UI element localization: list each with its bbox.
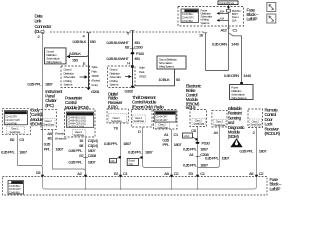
module PCM dashed box bbox=[65, 109, 96, 137]
fuse block bottom (dashed) bbox=[3, 177, 268, 196]
label 0.35 PPL 1807 on PCM wire bbox=[69, 148, 97, 153]
label 0.35 BLK/WHT 451 lower bbox=[107, 56, 141, 61]
fuse PRKNG BATT Fuse 1 10 A bbox=[227, 5, 242, 26]
pin A8 B1 of IPC bbox=[47, 131, 66, 141]
svg-text:(Federal): (Federal) bbox=[55, 132, 64, 136]
warning triangle SIR bbox=[230, 138, 242, 147]
label 0.35 PPL 1807 on IPC wire bbox=[44, 141, 64, 151]
svg-text:(Export Only): (Export Only) bbox=[132, 104, 153, 109]
svg-text:C3=48 BLK: C3=48 BLK bbox=[9, 192, 21, 195]
svg-text:Splice: Splice bbox=[139, 66, 145, 70]
fuse block name label bbox=[247, 7, 259, 21]
pin 16 of DLC bbox=[199, 33, 207, 38]
label 0.35 PPL 1807 on RCDLR wire bbox=[240, 148, 268, 153]
label 0.35 PPL 1807 on BCM wire bbox=[1, 150, 28, 155]
svg-text:1807: 1807 bbox=[222, 156, 231, 161]
RCDLR class 2 serial data tag bbox=[250, 119, 262, 127]
module BCM (body control module) dashed box bbox=[2, 109, 30, 135]
PCM class 2 serial data tag bbox=[73, 130, 86, 138]
label 0.35 PPL 1807 on EBCM wire bbox=[183, 146, 209, 151]
connector C208 crossing pin B7 bbox=[79, 153, 97, 158]
svg-text:Serial Data: Serial Data bbox=[134, 120, 145, 123]
svg-text:Wiring Systems: Wiring Systems bbox=[46, 60, 62, 64]
splice pack SP102 callout (dashed) bbox=[108, 66, 136, 87]
svg-text:SP205: SP205 bbox=[92, 74, 100, 78]
wire ORN 1440 from fuse bbox=[206, 26, 229, 71]
splice pack SP102 label bbox=[139, 66, 147, 79]
radio class 2 serial data tag bbox=[155, 123, 170, 130]
ground G201 bbox=[86, 88, 100, 94]
wire 10 BLK 50 to G102 bbox=[135, 69, 181, 86]
wire BLK 150 from DLC pin 4 bbox=[66, 33, 88, 88]
svg-text:Wiring Systems: Wiring Systems bbox=[159, 65, 175, 69]
svg-text:Serial Data: Serial Data bbox=[250, 124, 261, 127]
module PCM (powertrain control module) name bbox=[65, 95, 89, 109]
svg-text:SP102: SP102 bbox=[139, 75, 147, 79]
module radio dashed box bbox=[154, 110, 178, 130]
module EBCM dashed box bbox=[190, 110, 207, 127]
svg-text:Pack ,: Pack , bbox=[139, 70, 145, 74]
svg-text:Left I/P: Left I/P bbox=[247, 17, 258, 22]
svg-text:Left I/P: Left I/P bbox=[270, 186, 281, 191]
svg-text:0.35 PPL: 0.35 PPL bbox=[28, 82, 43, 87]
label 0.35 ORN 1440 upper bbox=[212, 42, 240, 47]
wire BLK/WHT 451 from DLC pin 5 bbox=[132, 31, 134, 86]
module digital radio dashed box bbox=[107, 109, 128, 123]
connector C200 crossing pin B2 bbox=[125, 44, 143, 49]
svg-text:0.35 PPL: 0.35 PPL bbox=[240, 148, 255, 153]
pin A2 of fuse block bbox=[77, 171, 87, 178]
IPC class 2 serial data tag bbox=[43, 119, 56, 127]
svg-text:1807: 1807 bbox=[45, 82, 54, 87]
pin A12 C1 of fuse block bbox=[221, 26, 239, 32]
label 0.35 BLK/WHT 451 upper bbox=[107, 40, 141, 45]
wire serial data bus inside fuse block bbox=[43, 178, 257, 190]
fuse block bottom connector table bbox=[8, 181, 24, 195]
wire PPL 1807 from theft deterrent bbox=[143, 127, 172, 168]
splice pack SP205 label bbox=[92, 65, 101, 87]
grommet P100 on EBCM wire bbox=[196, 141, 211, 146]
svg-text:0.35 PPL: 0.35 PPL bbox=[104, 141, 119, 146]
svg-text:Systems: Systems bbox=[201, 21, 210, 25]
module digital radio receiver name bbox=[108, 91, 123, 109]
svg-text:1807: 1807 bbox=[200, 146, 209, 151]
svg-text:C2=16 GRY: C2=16 GRY bbox=[156, 119, 168, 122]
svg-text:Systems: Systems bbox=[64, 83, 73, 87]
svg-text:1440: 1440 bbox=[231, 42, 240, 47]
svg-text:Radio: Radio bbox=[154, 105, 164, 110]
grommet P100 on 451 wire bbox=[131, 51, 145, 56]
svg-text:Serial Data: Serial Data bbox=[111, 120, 122, 123]
svg-text:(Federal: (Federal bbox=[92, 79, 101, 83]
svg-text:(U2K): (U2K) bbox=[108, 104, 118, 109]
module SDM name bbox=[228, 106, 246, 139]
svg-text:C2=24 LT GRY: C2=24 LT GRY bbox=[5, 119, 20, 122]
svg-text:(RCDLR): (RCDLR) bbox=[265, 131, 281, 136]
svg-text:Serial Data: Serial Data bbox=[194, 122, 205, 125]
svg-text:1807: 1807 bbox=[56, 147, 65, 152]
pin E3 C1 of fuse block bbox=[189, 171, 206, 178]
svg-text:1807: 1807 bbox=[88, 159, 97, 164]
svg-text:C4=79 BLK (WH): C4=79 BLK (WH) bbox=[67, 125, 84, 128]
svg-text:C200: C200 bbox=[134, 44, 143, 49]
svg-text:Pack ,: Pack , bbox=[92, 70, 98, 74]
svg-text:0.35 PPL: 0.35 PPL bbox=[205, 156, 220, 161]
svg-text:CONN ID: CONN ID bbox=[8, 112, 18, 115]
svg-text:10 A: 10 A bbox=[232, 18, 237, 22]
svg-text:Serial Data: Serial Data bbox=[157, 126, 168, 129]
module IPC (instrument panel cluster) name bbox=[45, 89, 63, 108]
pin 58 C1 of PCM bbox=[79, 143, 97, 148]
pin A8 C2 of fuse block bbox=[164, 171, 179, 178]
fuse block internal terminal arrows bbox=[217, 10, 229, 22]
splice pack SP205 callout (dashed) bbox=[61, 66, 90, 88]
svg-text:10 BLK: 10 BLK bbox=[159, 77, 171, 82]
svg-text:G201: G201 bbox=[91, 89, 100, 94]
svg-text:C3=24 PNK: C3=24 PNK bbox=[5, 123, 17, 126]
module EBCM name bbox=[186, 84, 202, 111]
label 0.35 PPL 1807 on PCM wire lower bbox=[69, 159, 97, 164]
module theft deterrent dashed box bbox=[131, 110, 152, 128]
option tag w/JL4 on EBCM wire bbox=[183, 133, 198, 140]
ground distribution reference box (top left) bbox=[45, 48, 67, 64]
svg-text:Serial Data: Serial Data bbox=[43, 124, 54, 127]
radio connector table bbox=[155, 111, 176, 122]
module theft deterrent name bbox=[132, 95, 157, 109]
svg-text:0.35 BLK/WHT: 0.35 BLK/WHT bbox=[107, 56, 130, 61]
wire PPL 1807 from EBCM bbox=[197, 127, 199, 177]
svg-text:0.35 PPL: 0.35 PPL bbox=[69, 159, 84, 164]
label 0.35 PPL 1807 on digital radio wire bbox=[104, 141, 132, 146]
svg-text:1807: 1807 bbox=[123, 141, 132, 146]
svg-text:(SDM): (SDM) bbox=[228, 134, 240, 139]
module SDM dashed box bbox=[212, 110, 227, 127]
svg-text:1807: 1807 bbox=[200, 162, 209, 167]
svg-text:CONN ID: CONN ID bbox=[159, 112, 169, 115]
label 0.35 PPL 1807 on SDM wire bbox=[205, 156, 230, 161]
wire ORN 1440 branch to power distribution bbox=[229, 33, 243, 85]
pin E2 C1 of fuse block bbox=[114, 171, 129, 178]
wire PPL 1807 from digital radio bbox=[120, 124, 122, 177]
svg-text:0.35 PPL: 0.35 PPL bbox=[1, 150, 16, 155]
wire PPL 1807 from radio bbox=[171, 129, 173, 176]
svg-text:1807: 1807 bbox=[174, 142, 183, 147]
svg-text:1807: 1807 bbox=[19, 150, 28, 155]
svg-text:0.35 ORN: 0.35 ORN bbox=[212, 42, 227, 47]
module RCDLR dashed box bbox=[248, 109, 263, 128]
label 0.35 PPL 1807 on EBCM wire lower bbox=[183, 162, 209, 167]
pin A1 C1 of radio bbox=[164, 132, 179, 137]
icon page-nav top right 2 bbox=[267, 14, 276, 23]
svg-text:Serial Data: Serial Data bbox=[215, 124, 226, 127]
svg-text:0.35 ORN: 0.35 ORN bbox=[224, 73, 239, 78]
SDM class 2 serial data tag bbox=[213, 120, 226, 127]
node H splice pack SP102 entry bbox=[127, 61, 133, 68]
power distribution reference box bbox=[230, 85, 254, 101]
BCM class 2 serial data tag bbox=[7, 126, 25, 134]
svg-text:Hot at All Times: Hot at All Times bbox=[219, 1, 234, 5]
ground G102 bbox=[125, 86, 135, 94]
svg-text:1807: 1807 bbox=[145, 149, 154, 154]
BCM connector table bbox=[4, 111, 27, 126]
svg-text:Emis.): Emis.) bbox=[92, 83, 98, 87]
fuse block bottom name label bbox=[270, 177, 282, 191]
svg-text:Systems: Systems bbox=[110, 83, 119, 87]
svg-text:U2K: U2K bbox=[110, 160, 115, 163]
svg-text:Wiring Systems: Wiring Systems bbox=[231, 96, 247, 100]
svg-text:Serial Data: Serial Data bbox=[10, 131, 21, 134]
BCM name label bbox=[31, 108, 44, 127]
wire PPL 1807 from IPC bbox=[53, 129, 86, 176]
label 0.8 BLK 150 on branch bbox=[69, 51, 81, 62]
svg-text:1807: 1807 bbox=[259, 148, 268, 153]
icon page-nav top right 1 bbox=[267, 3, 276, 12]
label 0.35 ORN 1440 lower bbox=[224, 73, 252, 78]
svg-text:1440: 1440 bbox=[243, 73, 252, 78]
PCM connector table bbox=[66, 112, 93, 128]
option tag U2K on digital radio wire bbox=[109, 156, 121, 163]
label 0.35 PPL 1807 on theft wire bbox=[128, 149, 154, 154]
module IPC dashed box bbox=[41, 109, 56, 129]
svg-text:C208: C208 bbox=[88, 153, 97, 158]
fuse block hot at all times header bbox=[218, 1, 238, 5]
connector C208 crossing pin A1 bbox=[189, 152, 209, 157]
module RCDLR name bbox=[265, 108, 281, 137]
svg-text:w/JL4: w/JL4 bbox=[184, 135, 190, 138]
pin 2 of DLC bbox=[38, 33, 45, 39]
option tag Export Only on theft wire bbox=[127, 156, 143, 165]
svg-text:Splice: Splice bbox=[92, 65, 98, 69]
pin B2 C3 of BCM bbox=[10, 137, 25, 142]
pin A5 C2 of fuse block bbox=[249, 171, 264, 178]
pin 15 C1 of PCM bbox=[79, 138, 97, 143]
svg-text:P100: P100 bbox=[202, 141, 211, 146]
svg-text:0.35 PPL: 0.35 PPL bbox=[183, 146, 198, 151]
label 0.35 PPL 1807 on pin2 wire bbox=[28, 82, 54, 87]
power distribution note in fuse block bbox=[201, 8, 213, 24]
wire PPL 1807 from PCM bbox=[85, 137, 87, 176]
svg-text:0.35 PPL: 0.35 PPL bbox=[128, 149, 143, 154]
fuse block top connector table bbox=[181, 9, 199, 23]
svg-text:C3=48 BLK: C3=48 BLK bbox=[182, 20, 194, 23]
svg-text:Serial Data: Serial Data bbox=[74, 134, 85, 137]
svg-text:C1=16 GRY: C1=16 GRY bbox=[5, 115, 17, 118]
theft deterrent class 2 serial data tag bbox=[133, 115, 146, 123]
fuse block (dashed) top right bbox=[178, 7, 244, 27]
ground distribution reference box (right) bbox=[157, 56, 186, 69]
node DLC bottom edge (dashed) bbox=[50, 31, 205, 33]
connector DLC label bbox=[35, 14, 52, 35]
EBCM class 2 serial data tag bbox=[192, 119, 206, 126]
svg-text:0.35 PPL: 0.35 PPL bbox=[183, 162, 198, 167]
wire PPL 1807 from RCDLR bbox=[256, 128, 258, 177]
wire PPL 1807 from DLC pin 2 bbox=[42, 33, 44, 165]
pin D3 of fuse block bbox=[36, 170, 44, 178]
wire PPL 1807 from BCM bbox=[18, 135, 43, 176]
wire PPL 1807 from SDM bbox=[198, 127, 220, 168]
svg-text:G102: G102 bbox=[125, 89, 134, 94]
svg-text:(IPC): (IPC) bbox=[45, 103, 54, 108]
label 0.35 BLK 150 bbox=[73, 39, 97, 44]
pin 4 of DLC bbox=[83, 33, 91, 39]
svg-text:0.35 BLK: 0.35 BLK bbox=[73, 39, 87, 44]
label 0.35 PPL 1807 on radio wire bbox=[163, 137, 183, 147]
svg-text:0.8 BLK: 0.8 BLK bbox=[69, 51, 81, 56]
digital radio class 2 serial data tag bbox=[109, 114, 127, 124]
pin 5 of DLC bbox=[127, 30, 134, 35]
